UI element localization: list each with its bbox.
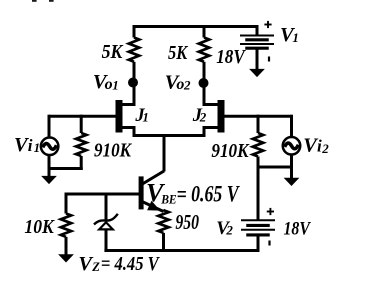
svg-text:2: 2 <box>199 110 207 125</box>
svg-text:10K: 10K <box>24 216 55 238</box>
svg-text:910K: 910K <box>94 139 132 161</box>
svg-text:i: i <box>28 136 33 155</box>
svg-text:BE: BE <box>160 193 176 207</box>
svg-text:1: 1 <box>292 30 299 45</box>
svg-text:i: i <box>317 136 322 155</box>
svg-text:= 4.45 V: = 4.45 V <box>101 253 161 275</box>
svg-text:2: 2 <box>225 223 233 238</box>
svg-text:5K: 5K <box>102 41 124 63</box>
svg-text:2: 2 <box>321 141 329 156</box>
svg-text:5K: 5K <box>168 42 188 64</box>
svg-text:= 0.65 V: = 0.65 V <box>177 181 240 206</box>
svg-text:950: 950 <box>175 210 199 234</box>
svg-text:2: 2 <box>183 78 191 93</box>
svg-text:1: 1 <box>34 140 41 155</box>
svg-text:18V: 18V <box>216 46 246 68</box>
svg-text:18V: 18V <box>284 218 311 239</box>
svg-text:1: 1 <box>142 110 149 125</box>
svg-text:1: 1 <box>112 77 119 92</box>
svg-text:910K: 910K <box>211 140 249 162</box>
svg-text:Z: Z <box>91 260 100 274</box>
